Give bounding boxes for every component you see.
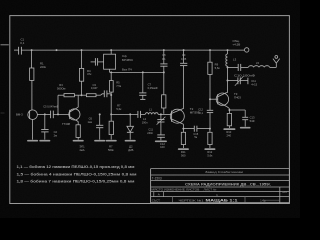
svg-text:С11: С11 [148,128,153,132]
svg-text:R10: R10 [226,130,231,134]
svg-text:МЯСТО ИЗМЕНЕНИЕ ЛИСТОВ: МЯСТО ИЗМЕНЕНИЕ ЛИСТОВ [151,189,199,192]
svg-text:С6: С6 [89,116,93,120]
svg-text:560Ом: 560Ом [57,87,66,91]
svg-text:Д2: Д2 [129,145,133,149]
svg-text:R12: R12 [207,150,212,154]
svg-text:С8: С8 [162,53,166,57]
svg-text:1,1 — бобина 12 навивки ПЕЛШО-: 1,1 — бобина 12 навивки ПЕЛШО-0,15 пров.… [17,165,136,169]
svg-text:С5 0,047мкФ: С5 0,047мкФ [43,104,58,108]
svg-text:0,1: 0,1 [199,111,203,115]
svg-text:L5: L5 [256,61,259,65]
svg-text:L3: L3 [233,57,237,61]
svg-text:МП39Б: МП39Б [190,110,200,114]
svg-text:БР465С: БР465С [122,58,134,62]
svg-text:7,5к: 7,5к [116,84,122,88]
svg-text:5,6к: 5,6к [207,154,213,158]
svg-text:R7: R7 [117,104,121,108]
svg-text:560: 560 [181,154,186,158]
svg-text:СЪСТ.: СЪСТ. [152,198,161,202]
svg-text:Вых ПЧ: Вых ПЧ [122,67,132,71]
svg-text:100п: 100п [142,121,148,125]
svg-text:Завод Слаботокови: Завод Слаботокови [205,170,243,174]
svg-text:С15: С15 [193,132,198,136]
svg-text:СХЕМА РАДИОПРИЕМНИК ДВ...СВ...: СХЕМА РАДИОПРИЕМНИК ДВ...СВ...1959г. [185,183,271,187]
svg-text:240п: 240п [147,131,153,135]
svg-text:Г-1503: Г-1503 [152,176,162,180]
svg-text:+4,5В: +4,5В [232,42,240,46]
svg-text:220к: 220к [40,65,47,69]
svg-text:ЛИСТ №: ЛИСТ № [204,189,217,192]
svg-text:R3: R3 [59,83,63,87]
svg-text:0,047: 0,047 [91,86,98,90]
svg-text:П403: П403 [234,95,241,99]
svg-text:1,5 — бобина 4 навивки ПЕЛШО-0: 1,5 — бобина 4 навивки ПЕЛШО-0,15/0,25мм… [17,172,138,176]
svg-text:R7: R7 [109,145,113,149]
svg-text:С13: С13 [250,115,255,119]
svg-text:С2: С2 [54,130,58,134]
svg-text:0,05: 0,05 [181,57,187,61]
svg-text:ВМ-3: ВМ-3 [16,113,23,117]
svg-text:L1: L1 [149,107,152,111]
svg-text:4÷15: 4÷15 [251,83,257,87]
svg-text:5,6к: 5,6к [116,107,122,111]
svg-text:ЧЕРТЕЖ №1: ЧЕРТЕЖ №1 [179,198,204,202]
svg-text:С12: С12 [160,142,165,146]
svg-text:№24: №24 [282,191,288,194]
svg-text:А: А [158,193,160,197]
svg-text:ЭП1: ЭП1 [79,144,85,148]
svg-text:1,8 — бобина 7 навивки ПЕЛШО-0: 1,8 — бобина 7 навивки ПЕЛШО-0,15/0,25мм… [17,180,136,184]
svg-text:МАЩАБ 1:1: МАЩАБ 1:1 [206,198,238,202]
svg-text:С9: С9 [182,53,186,57]
svg-text:5пФ: 5пФ [250,119,255,123]
svg-text:100: 100 [160,145,165,149]
svg-text:ГТ308: ГТ308 [62,122,70,126]
svg-text:560к: 560к [108,148,114,152]
svg-text:С11: С11 [251,79,256,83]
svg-text:0,1: 0,1 [20,41,24,45]
svg-text:2м: 2м [54,133,57,137]
svg-text:240: 240 [227,133,232,137]
svg-text:Д2Б: Д2Б [128,148,133,152]
svg-text:R5: R5 [116,80,120,84]
svg-text:С10 100пФ: С10 100пФ [234,74,256,78]
svg-text:4мА: 4мА [79,148,84,152]
svg-text:0,1: 0,1 [162,57,166,61]
svg-text:5,6к: 5,6к [215,66,221,70]
svg-text:С7: С7 [148,83,152,87]
svg-text:0,05мкФ: 0,05мкФ [148,86,158,90]
svg-text:С3: С3 [92,83,96,87]
svg-text:R11: R11 [181,150,186,154]
